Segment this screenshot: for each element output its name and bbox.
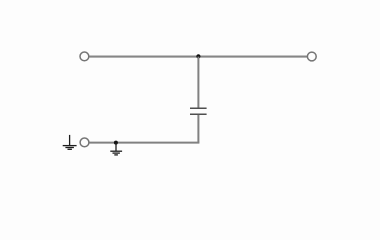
wire top horizontal: [89, 56, 307, 58]
terminal circle bottom-left: [80, 138, 89, 147]
node junction bottom (ground tap): [114, 141, 118, 145]
ground symbol left (protective earth at terminal): [63, 135, 77, 149]
terminal circle top-right: [307, 52, 316, 61]
wire vertical upper (junction to capacitor): [197, 57, 199, 108]
wire bottom horizontal: [89, 142, 199, 144]
node junction top: [196, 54, 200, 58]
wire vertical lower (capacitor to bottom wire): [197, 115, 199, 143]
capacitor C1: [190, 108, 207, 114]
terminal circle top-left: [80, 52, 89, 61]
ground symbol right (on bottom wire): [110, 143, 122, 155]
